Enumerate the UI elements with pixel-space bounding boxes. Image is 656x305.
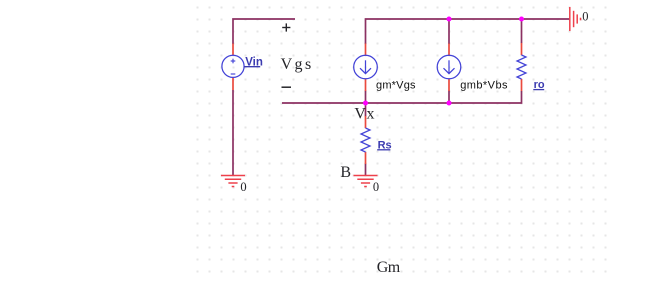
current source gmb*Vbs (437, 44, 461, 92)
junction node: bottom rail / gmb*Vbs (447, 101, 452, 106)
svg-text:0: 0 (582, 10, 588, 24)
wire: gm*Vgs bottom drop (365, 91, 367, 104)
wire: bottom rail (source node) with ro corner (282, 91, 522, 103)
annotation + (Vgs plus) (282, 23, 290, 31)
wire: gmb*Vbs bottom drop (448, 91, 450, 104)
wire: Vx node down to Rs (365, 103, 367, 117)
label Rs (377, 139, 391, 151)
junction node: top rail / gmb*Vbs (447, 17, 452, 22)
wire: gmb*Vbs top drop (448, 19, 450, 44)
svg-text:Vgs: Vgs (281, 56, 314, 73)
junction node: top rail / ro (519, 17, 524, 22)
svg-text:Vx: Vx (354, 105, 375, 122)
svg-text:0: 0 (373, 180, 379, 194)
wire: top rail from gm*Vgs corner to ground (366, 19, 570, 44)
wire: ro top drop (521, 19, 523, 43)
svg-text:Gm: Gm (377, 259, 401, 276)
wire: Vin top to gate stub (233, 19, 295, 44)
ground 0 (right, top rail) (570, 7, 581, 31)
resistor Rs (361, 116, 370, 164)
svg-text:B: B (340, 164, 351, 181)
current source gm*Vgs (354, 44, 378, 92)
label ro (533, 79, 545, 91)
wire: Vin bottom to ground (232, 90, 234, 176)
ground 0 (node B, under Rs) (354, 176, 378, 187)
annotation - (Vgs minus) (282, 86, 292, 88)
ground 0 (left, under Vin) (221, 176, 245, 187)
label Vin (244, 57, 263, 69)
resistor ro (517, 43, 526, 91)
svg-text:0: 0 (240, 180, 246, 194)
svg-text:gmb*Vbs: gmb*Vbs (460, 79, 508, 91)
wire: Rs bottom to ground B (365, 164, 367, 176)
junction node Vx: bottom rail / Rs (363, 101, 368, 106)
voltage source Vin (222, 44, 244, 91)
svg-text:gm*Vgs: gm*Vgs (376, 79, 416, 91)
